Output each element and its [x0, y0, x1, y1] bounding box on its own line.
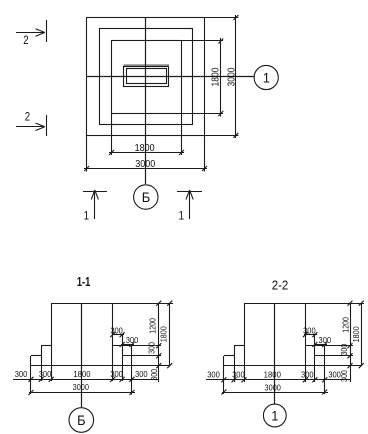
section 1-1 bottom dim 3000 line	[29, 392, 135, 394]
svg-text:1800: 1800	[73, 370, 91, 379]
column pocket inner rectangle	[127, 69, 167, 84]
section 2-2 right dim line outer (1800)	[361, 303, 363, 366]
section marker 2 (top left) cut line	[46, 20, 48, 42]
section 1-1 middle step top left	[41, 345, 51, 347]
column pocket outer rectangle	[124, 67, 169, 87]
axis bubble Б (plan)	[134, 185, 158, 209]
svg-text:2: 2	[23, 34, 28, 47]
section 2-2 middle step right edge	[314, 335, 316, 383]
section 2-2 bottom step left edge	[223, 356, 225, 394]
svg-text:1: 1	[263, 70, 270, 86]
svg-text:300: 300	[319, 336, 332, 345]
section 1-1 column top	[51, 303, 173, 305]
section 1-1 bottom step right edge	[131, 345, 133, 395]
section 1-1 middle step right edge	[122, 335, 124, 382]
svg-text:1800: 1800	[159, 326, 168, 342]
section marker 2 (top left) arrow	[16, 32, 44, 34]
svg-text:300: 300	[301, 370, 314, 379]
svg-text:300: 300	[135, 370, 148, 379]
svg-text:3000: 3000	[73, 383, 89, 392]
section 2-2 bottom step right edge	[324, 345, 326, 395]
section 1-1 bottom step top left	[31, 355, 41, 357]
svg-text:1: 1	[83, 210, 89, 223]
svg-text:300: 300	[15, 370, 28, 379]
svg-text:3000: 3000	[135, 159, 155, 171]
section 1-1 column right edge	[112, 303, 114, 381]
footing middle step square 2400	[100, 29, 193, 125]
dimension 3000 (plan right) line	[235, 15, 237, 138]
svg-text:300: 300	[340, 344, 350, 356]
section marker 2 (bottom left) arrow	[16, 126, 44, 128]
section 1-1 bottom step left edge	[30, 356, 32, 394]
section 2-2 base bottom	[224, 365, 361, 367]
svg-text:1800: 1800	[135, 143, 155, 155]
section marker 1 (left) cut line	[83, 191, 107, 193]
section 2-2 right dim line inner (1200/300/300)	[350, 303, 352, 382]
svg-text:1: 1	[178, 210, 184, 223]
section 2-2 column top	[244, 303, 364, 305]
section 2-2 axis line	[274, 303, 276, 404]
section marker 1 (left) arrow	[94, 190, 96, 219]
section 1-1 axis line	[81, 303, 83, 407]
footing top step square 1800	[112, 41, 182, 114]
section 2-2 step dim 300 #1 line	[304, 334, 317, 336]
svg-text:300: 300	[303, 326, 316, 335]
section 1-1 right dim line inner (1200/300/300)	[158, 303, 160, 382]
section 2-2 step dim 300 #2 line	[314, 344, 327, 346]
svg-text:300: 300	[340, 370, 350, 382]
axis 1 horizontal line	[87, 76, 254, 78]
svg-text:300: 300	[328, 370, 341, 379]
svg-text:300: 300	[150, 369, 160, 381]
svg-text:1-1: 1-1	[77, 276, 91, 290]
svg-text:Б: Б	[77, 413, 86, 429]
dimension 3000 (plan right) extension lines	[204, 17, 239, 19]
section 2-2 bottom step top right + extension	[315, 355, 353, 357]
section 1-1 step dim 300 #2 line	[121, 344, 134, 346]
section 1-1 column left edge	[51, 303, 53, 381]
section 1-1 step dim 300 #1 line	[112, 334, 124, 336]
svg-text:2-2: 2-2	[272, 278, 289, 293]
dimension 1800 (plan right) line	[220, 38, 222, 117]
svg-text:3000: 3000	[265, 383, 281, 392]
axis Б vertical line	[145, 18, 147, 184]
svg-text:Б: Б	[142, 189, 151, 205]
section marker 2 (bottom left) cut line	[46, 115, 48, 136]
svg-text:1200: 1200	[148, 318, 158, 334]
axis bubble 1 (plan)	[254, 65, 278, 89]
dimension 1800 (plan right) extension lines	[182, 40, 223, 42]
svg-text:300: 300	[110, 370, 123, 379]
dimension 3000 (plan bottom) line	[84, 168, 207, 170]
dimension 3000 (plan bottom) extension lines	[86, 135, 88, 172]
footing outer square 3000x3000	[87, 18, 205, 136]
svg-text:300: 300	[110, 326, 123, 335]
section 2-2 bottom dim 3000 line	[222, 392, 328, 394]
section 1-1 axis bubble Б	[69, 408, 94, 433]
svg-text:300: 300	[39, 370, 52, 379]
section 2-2 middle step top left	[234, 345, 244, 347]
section 1-1 base bottom	[31, 365, 170, 367]
section 2-2 middle step top right + extension	[305, 345, 353, 347]
svg-text:2: 2	[25, 111, 30, 124]
svg-text:1800: 1800	[210, 68, 221, 87]
section 2-2 axis bubble 1	[263, 404, 286, 427]
svg-text:300: 300	[232, 370, 245, 379]
section 1-1 bottom step top right + extension	[122, 355, 161, 357]
column pocket thick top edge	[124, 64, 170, 66]
svg-text:300: 300	[207, 370, 220, 379]
svg-text:300: 300	[126, 336, 139, 345]
section marker 1 (right) cut line	[177, 191, 202, 193]
section 1-1 bottom dim row line	[13, 379, 159, 381]
section 2-2 column left edge	[244, 303, 246, 382]
svg-text:1800: 1800	[352, 326, 361, 342]
section 1-1 middle step left edge	[41, 346, 43, 381]
svg-text:300: 300	[147, 342, 157, 354]
section 2-2 bottom step top left	[224, 355, 234, 357]
section 2-2 bottom dim row line	[206, 379, 351, 381]
svg-text:1: 1	[271, 408, 278, 424]
section 2-2 column right edge	[305, 303, 307, 382]
section 1-1 right dim line outer (1800)	[169, 303, 171, 366]
svg-text:1200: 1200	[341, 317, 351, 333]
section 1-1 middle step top right + extension	[113, 345, 161, 347]
svg-text:1800: 1800	[264, 371, 282, 380]
dimension 1800 (plan bottom) line	[109, 152, 184, 154]
dimension 1800 (plan bottom) extension lines	[111, 114, 113, 156]
section 2-2 middle step left edge	[234, 346, 236, 382]
svg-text:3000: 3000	[226, 68, 237, 87]
section marker 1 (right) arrow	[189, 190, 191, 219]
